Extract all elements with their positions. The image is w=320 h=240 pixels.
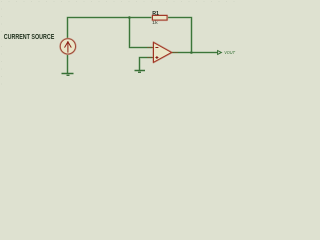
svg-text:CURRENT SOURCE: CURRENT SOURCE [4, 34, 55, 41]
op-amp U1 output pin stub [172, 52, 178, 54]
node B junction of output and feedback [190, 51, 193, 54]
wire op-amp output to VOUT terminal [172, 51, 218, 53]
svg-text:VOUT: VOUT [224, 50, 236, 56]
wire top rail with left drop to current source and right drop to output node [68, 18, 192, 53]
op-amp U1 non-inverting pin stub [148, 57, 154, 59]
node A junction of rail and feedback drop [128, 16, 131, 19]
current source I1 circle [60, 39, 75, 54]
op-amp U1 inverting input mark [155, 47, 158, 49]
wire current source bottom to ground [66, 54, 68, 74]
ground under op-amp non-inverting input [135, 71, 146, 73]
op-amp U1 body [154, 42, 172, 62]
op-amp U1 non-inverting input mark [155, 56, 158, 59]
terminal VOUT pin symbol [218, 51, 222, 55]
wire feedback drop from node A to inverting input [130, 18, 154, 48]
current source I1 arrow [65, 42, 71, 53]
resistor R1 body [153, 16, 168, 21]
svg-text:R1: R1 [152, 11, 160, 17]
svg-text:1k: 1k [152, 20, 158, 25]
wire non-inverting input to ground stub [140, 58, 154, 71]
ground under current source [62, 74, 74, 76]
op-amp U1 inverting pin stub [148, 47, 154, 49]
